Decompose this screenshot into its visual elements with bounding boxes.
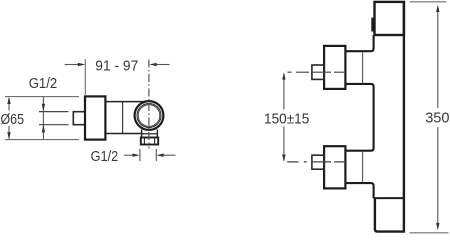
dimension 350 <box>425 5 449 231</box>
body left edge middle segment (right view) <box>345 84 373 151</box>
body left edge lower segment (right view) <box>345 183 373 198</box>
svg-text:91 - 97: 91 - 97 <box>95 58 138 75</box>
knob axis centerline (left view) <box>148 60 150 149</box>
bottom wall escutcheon (right view) <box>324 146 345 188</box>
valve body (left view) <box>105 102 146 134</box>
dimension G1/2 arrows (left view inlet stub) <box>42 97 45 140</box>
top inlet centerline (right view) <box>288 71 346 73</box>
dimension Ø65 <box>1 97 25 140</box>
bottom inlet centerline (right view) <box>287 161 345 163</box>
svg-text:350: 350 <box>425 110 449 127</box>
knob clip notch (right view) <box>371 18 374 32</box>
bottom knob (right view) <box>375 198 404 232</box>
dimension G1/2 outlet arrows (left view) <box>124 149 176 161</box>
outlet nut G1/2 (left view) <box>141 138 158 145</box>
connector divider bottom (right view) <box>362 152 364 183</box>
wall escutcheon (left view) <box>85 96 105 139</box>
extension line bottom (350, right view) <box>409 232 448 234</box>
extension line top (350, right view) <box>410 1 447 3</box>
svg-text:G1/2: G1/2 <box>91 148 119 165</box>
dimension 91 - 97 <box>65 58 170 96</box>
top knob (right view) <box>375 2 404 35</box>
body joint line (left view) <box>122 102 124 134</box>
dimension 150±15 <box>264 72 309 162</box>
svg-text:Ø65: Ø65 <box>1 111 25 128</box>
control knob circle (left view) <box>135 101 164 130</box>
stub extension lines (left view) <box>39 111 69 113</box>
svg-text:150±15: 150±15 <box>264 111 309 128</box>
connector divider top (right view) <box>362 52 364 83</box>
extension line bottom (escutcheon bottom, left view) <box>5 139 79 141</box>
outlet neck (left view) <box>141 130 158 138</box>
svg-text:G1/2: G1/2 <box>29 75 58 92</box>
body left edge upper segment (right view) <box>345 35 373 51</box>
top inlet stub (right view) <box>312 65 324 79</box>
bottom inlet stub (right view) <box>312 155 324 169</box>
inlet stub (left view) <box>73 112 85 125</box>
top wall escutcheon (right view) <box>324 46 345 89</box>
body cross line (right view) <box>374 197 404 199</box>
body right edge (right view) <box>403 1 405 233</box>
extension line top (escutcheon top, left view) <box>5 96 79 98</box>
